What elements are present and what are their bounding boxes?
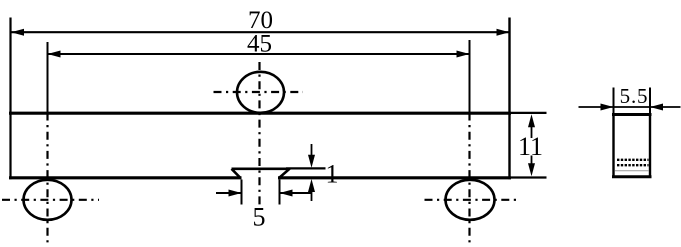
notch top extension line for dim 1 — [286, 167, 326, 169]
svg-text:5.5: 5.5 — [620, 84, 649, 108]
right support vertical centerline — [468, 113, 470, 246]
dimension 5 left extension line — [241, 180, 243, 205]
dimension 5.5 right arrow — [650, 106, 681, 108]
section dotted texture row 2 — [617, 164, 649, 166]
dimension 5 right extension line — [279, 180, 281, 205]
beam bottom edge left segment — [9, 176, 242, 179]
svg-text:5: 5 — [253, 203, 266, 232]
dimension 70 left arrowhead — [11, 29, 24, 36]
dimension 45 right arrowhead — [457, 51, 470, 58]
notch outline — [232, 169, 290, 178]
dimension 45 left arrowhead — [48, 51, 61, 58]
section view left edge — [612, 115, 614, 177]
dimension 5.5 left arrow — [579, 106, 614, 108]
right support horizontal centerline — [425, 199, 517, 201]
dimension 45 line — [48, 53, 470, 55]
dimension 5.5 line — [614, 106, 651, 108]
section view bottom edge — [612, 175, 652, 178]
left support vertical centerline — [46, 113, 48, 246]
beam left edge / extension line dim 70 — [9, 18, 11, 180]
dimension 5 right arrow — [280, 192, 313, 194]
svg-text:11: 11 — [518, 132, 543, 161]
section dotted texture row 1 — [617, 159, 649, 161]
loading roller circle — [237, 72, 284, 113]
dimension 5.5 left extension line — [613, 88, 615, 114]
svg-text:45: 45 — [247, 31, 272, 58]
loading roller horizontal centerline — [214, 91, 304, 93]
dimension 1 lower arrow — [311, 192, 313, 202]
dimension 11 upper arrow — [531, 127, 533, 138]
beam bottom edge extension for dim 11 — [511, 176, 547, 178]
vertical centerline through loading roller and notch — [258, 62, 260, 207]
left support roller circle — [24, 180, 72, 220]
section faint inner line — [615, 170, 649, 172]
dimension 45 left extension line — [47, 42, 49, 113]
dimension 5 left arrow — [216, 192, 242, 194]
dimension 1 upper arrow — [311, 144, 313, 156]
dimension 11 lower arrow — [531, 156, 533, 164]
right support roller circle — [446, 180, 495, 220]
svg-text:1: 1 — [326, 160, 339, 189]
section view top edge — [612, 113, 652, 116]
beam right edge / extension line dim 70 — [508, 18, 510, 180]
dimension 45 right extension line — [469, 40, 471, 113]
left support horizontal centerline — [2, 199, 99, 201]
beam top edge — [9, 112, 511, 115]
dimension 70 line — [11, 31, 510, 33]
beam bottom edge right segment — [278, 176, 511, 179]
beam top edge extension for dim 11 — [511, 112, 547, 114]
dimension 70 right arrowhead — [497, 29, 510, 36]
section view right edge — [649, 115, 651, 177]
dimension 5.5 right extension line — [649, 88, 651, 114]
